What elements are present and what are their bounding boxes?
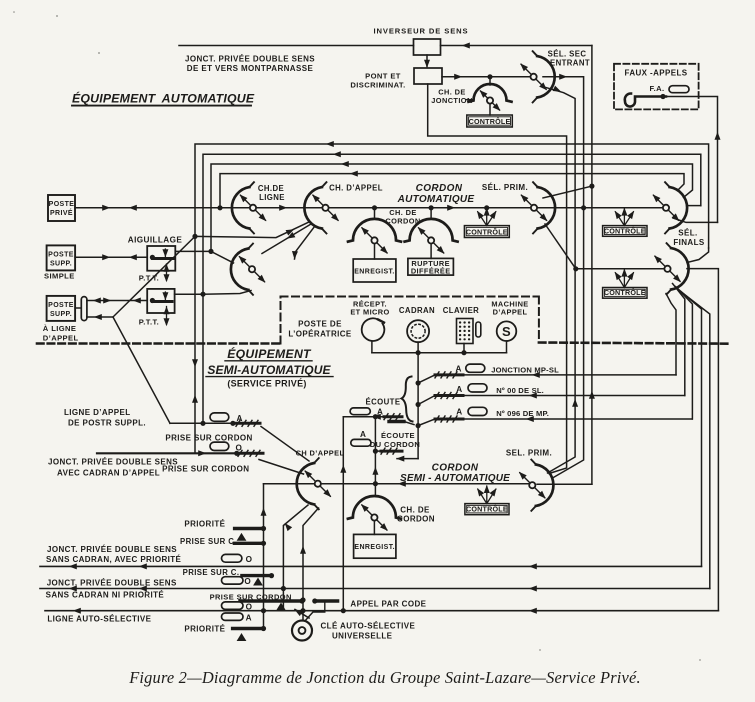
label LIGNE D APPEL DE POSTE SUPPL [64, 408, 146, 428]
wire frame line 2 [203, 151, 701, 423]
svg-text:SUPP.: SUPP. [50, 311, 72, 318]
svg-text:CLÉ AUTO-SÉLECTIVE: CLÉ AUTO-SÉLECTIVE [321, 622, 416, 631]
wire sel prim down-diagonal to bus v575 [545, 224, 576, 269]
jack bar appel par code [277, 599, 338, 610]
wire poste prive main line [75, 205, 250, 211]
wire sel finals2 fan to row No 00 DE SL [673, 284, 685, 396]
node diag x v592 [590, 184, 594, 188]
component CADRAN dial [399, 306, 435, 342]
wire sel finals 2 input line [576, 268, 664, 270]
P.T.T. double arrow 1 [139, 264, 170, 283]
wire sel finals1 side link to v701 [687, 205, 701, 207]
wire bottom bus 3 [45, 608, 718, 614]
node ch de cordon 1 tap [372, 206, 376, 210]
label JONCT PRIVEE DOUBLE SENS AVEC CADRAN [48, 458, 178, 478]
label JONCT PRIVEE SANS CADRAN AVEC PRIORITE [46, 545, 182, 564]
selector SEL FINALS 1 [650, 182, 687, 233]
row JONCTION MP-SL [435, 364, 676, 378]
pill O 3 [222, 602, 253, 611]
svg-text:LIGNE AUTO-SÉLECTIVE: LIGNE AUTO-SÉLECTIVE [47, 615, 151, 624]
svg-text:D’APPEL: D’APPEL [493, 308, 528, 317]
controle C3 with trident [603, 208, 647, 237]
svg-text:POSTE: POSTE [48, 302, 74, 309]
svg-text:PRISE SUR C.: PRISE SUR C. [183, 568, 240, 577]
selector CH. DE CORDON (semi) + ENREGIST [348, 484, 435, 559]
wire inverseur output to right bus corner [441, 43, 592, 49]
svg-text:ENREGIST.: ENREGIST. [354, 544, 395, 551]
box POSTE SUPP. SIMPLE [44, 245, 75, 280]
controle C2 with trident [464, 208, 509, 238]
svg-text:CONTRÔLE: CONTRÔLE [466, 505, 508, 514]
label CORDON AUTOMATIQUE [397, 183, 475, 205]
node ch de cordon 2 tap [429, 206, 433, 210]
svg-text:PONT ET: PONT ET [365, 72, 401, 81]
svg-text:L’OPÉRATRICE: L’OPÉRATRICE [288, 330, 352, 339]
label POSTE DE L OPERATRICE [288, 320, 352, 339]
wire montparnasse trunk into inverseur [179, 45, 414, 47]
wire semi selector fan to v303 [300, 508, 319, 621]
svg-text:SANS CADRAN, AVEC PRIORITÉ: SANS CADRAN, AVEC PRIORITÉ [46, 555, 182, 564]
svg-text:PRISE SUR C.: PRISE SUR C. [180, 537, 237, 546]
svg-text:O: O [244, 577, 251, 586]
label CLE AUTO-SELECTIVE UNIVERSELLE [321, 622, 416, 641]
label CORDON SEMI-AUTOMATIQUE [400, 463, 510, 485]
selector aiguillage [231, 244, 268, 295]
svg-text:ENREGIST.: ENREGIST. [354, 269, 395, 276]
svg-text:CLAVIER: CLAVIER [443, 306, 479, 315]
svg-text:P.T.T.: P.T.T. [139, 318, 159, 327]
wire operator component bus [372, 341, 507, 355]
svg-text:A: A [246, 613, 252, 622]
svg-text:SEMI-AUTOMATIQUE: SEMI-AUTOMATIQUE [207, 363, 331, 377]
svg-text:FAUX -APPELS: FAUX -APPELS [624, 69, 687, 78]
wire jack diag row2 [418, 396, 435, 405]
svg-text:Nº 096 DE MP.: Nº 096 DE MP. [496, 409, 549, 418]
wire SEL.SEC diagonal output down bus v575 [542, 86, 578, 473]
svg-text:ÉCOUTE: ÉCOUTE [381, 431, 415, 440]
svg-text:A: A [456, 408, 462, 417]
svg-text:Nº 00 DE SL.: Nº 00 DE SL. [496, 386, 544, 395]
svg-text:ET MICRO: ET MICRO [350, 308, 389, 317]
svg-text:SEL. PRIM.: SEL. PRIM. [506, 449, 552, 458]
svg-text:PRISE SUR CORDON: PRISE SUR CORDON [165, 433, 252, 442]
svg-text:CONTRÔLE: CONTRÔLE [466, 228, 508, 237]
wire pill fork down-branch to ligne d appel row [113, 317, 170, 423]
wire frame line 1 (return bus) [192, 141, 709, 453]
svg-text:AIGUILLAGE: AIGUILLAGE [128, 236, 183, 245]
svg-text:CONTRÔLE: CONTRÔLE [469, 117, 511, 126]
box POSTE PRIVE [48, 195, 75, 221]
heading EQUIPEMENT SEMI-AUTOMATIQUE (SERVICE PRIVE) [206, 346, 333, 389]
component line-of-call pill (vertical) [75, 297, 87, 321]
wire pill bottom line of poste supp 3 [87, 314, 113, 320]
selector CH. D APPEL (auto) [304, 182, 383, 233]
row ligne d appel jack line [170, 420, 260, 426]
jack bar priorite 1 [235, 529, 264, 541]
wire semi line to v592 output [537, 483, 592, 485]
svg-text:ÉQUIPEMENT: ÉQUIPEMENT [227, 346, 312, 361]
wire sel prim up-diagonal to bus v592 [543, 186, 592, 198]
svg-text:CONTRÔLE: CONTRÔLE [604, 288, 646, 297]
component ecoute jack bar [389, 422, 414, 425]
svg-text:JONCT. PRIVÉE DOUBLE SENS: JONCT. PRIVÉE DOUBLE SENS [48, 458, 178, 467]
wire operator trunk down [416, 353, 420, 459]
wire junction drop to CH DE JONCTION dome [489, 77, 491, 85]
svg-text:CH. D’APPEL: CH. D’APPEL [329, 184, 383, 193]
row ECOUTE A pill [343, 407, 402, 419]
box POSTE SUPP. A LIGNE D'APPEL [43, 296, 79, 343]
node start of sel finals 2 line [574, 267, 578, 271]
selector SEL. SEC ENTRANT [518, 50, 590, 103]
svg-text:JONCT. PRIVÉE DOUBLE SENS: JONCT. PRIVÉE DOUBLE SENS [47, 545, 177, 554]
component pill O row2 [210, 442, 243, 452]
svg-text:DE POSTR SUPPL.: DE POSTR SUPPL. [68, 419, 146, 428]
row jonct privee avec cadran jack line [97, 450, 263, 456]
node controle C2 tap [485, 206, 489, 210]
wire main line CH DE LIGNE to CH D APPEL [256, 205, 323, 211]
component CLE AUTO-SELECTIVE key [292, 603, 325, 641]
svg-text:ÉCOUTE: ÉCOUTE [366, 397, 401, 406]
component MACHINE D APPEL [491, 300, 528, 342]
svg-text:AVEC CADRAN D’APPEL: AVEC CADRAN D’APPEL [57, 469, 160, 478]
wire sel finals2 fan to bottom bus2 [680, 291, 710, 589]
controle C5 with trident [465, 485, 509, 515]
wire semi line left corner down v262 [261, 484, 267, 631]
svg-text:F.A.: F.A. [649, 84, 664, 93]
wire aiguillage2 output to v203 [175, 292, 205, 296]
wire CH D APPEL short fan stub [291, 227, 314, 260]
wire pont output to SEL.SEC wiper [442, 74, 531, 80]
wire ecoute du cordon drop to semi line [372, 417, 378, 484]
selector CH. DE CORDON 2 + RUPTURE DIFFEREE [405, 208, 458, 276]
svg-text:DIFFÉRÉE: DIFFÉRÉE [411, 267, 451, 276]
pill O avec priorite [222, 554, 253, 564]
svg-text:JONCT. PRIVÉE DOUBLE SENS: JONCT. PRIVÉE DOUBLE SENS [47, 579, 177, 588]
svg-text:S: S [502, 324, 511, 339]
node junction on pont output [488, 75, 492, 79]
wire CH D APPEL fan to aiguillage selector [262, 224, 311, 254]
svg-text:DISCRIMINAT.: DISCRIMINAT. [350, 81, 405, 90]
svg-text:FINALS: FINALS [673, 238, 705, 247]
row ECOUTE DU CORDON [351, 430, 420, 454]
wire main line CH D APPEL to SEL PRIM [329, 205, 532, 211]
brace ecoute group [402, 377, 413, 422]
svg-text:JONCT. PRIVÉE DOUBLE SENS: JONCT. PRIVÉE DOUBLE SENS [185, 55, 315, 64]
wire sel finals1 fan to v717 [673, 218, 718, 222]
wire jack diag row3 [418, 419, 435, 426]
wire bottom bus 1 [40, 563, 702, 569]
component pill A row1 [210, 413, 243, 423]
svg-text:Figure 2—Diagramme de Jonction: Figure 2—Diagramme de Jonction du Groupe… [128, 668, 641, 687]
wire pont group frame bottom to bus v567 [428, 84, 567, 474]
node main line x bus v584 [582, 206, 586, 210]
svg-text:CORDON: CORDON [416, 183, 463, 194]
svg-text:ÉQUIPEMENT AUTOMATIQUE: ÉQUIPEMENT AUTOMATIQUE [72, 91, 255, 106]
pill O 2 [222, 577, 263, 586]
svg-text:CORDON: CORDON [397, 515, 435, 524]
svg-text:D’APPEL: D’APPEL [43, 334, 79, 343]
svg-text:(SERVICE PRIVÉ): (SERVICE PRIVÉ) [227, 379, 306, 389]
selector CH.DE LIGNE [232, 182, 285, 233]
wire inverseur bus v592 down to semi sel prim [554, 46, 595, 485]
svg-text:SÉL.: SÉL. [678, 229, 697, 238]
wire jack diag row1 [418, 375, 435, 383]
component F.A. plug hook [625, 93, 666, 106]
svg-text:INVERSEUR DE SENS: INVERSEUR DE SENS [373, 27, 468, 36]
svg-text:AUTOMATIQUE: AUTOMATIQUE [397, 194, 475, 205]
svg-text:ENTRANT: ENTRANT [550, 59, 590, 68]
svg-text:POSTE DE: POSTE DE [298, 320, 342, 329]
box CONTROLE C1 [467, 115, 513, 127]
wire sel finals2 fan to row No 096 DE MP [676, 287, 693, 420]
svg-text:CH. DE: CH. DE [400, 506, 430, 515]
row No 00 DE SL [435, 384, 685, 399]
P.T.T. double arrow 2 [139, 306, 170, 326]
wire dome to controle C1 [489, 104, 491, 115]
svg-text:LIGNE: LIGNE [259, 193, 285, 202]
boundary dashed equipment line (left) [37, 342, 281, 345]
wire trunk end left arrow [396, 456, 418, 462]
wire aiguillage1 to selector diag [211, 251, 234, 263]
svg-text:JONCTION MP-SL: JONCTION MP-SL [491, 365, 559, 374]
wire semi selector fan to v283 [281, 505, 308, 611]
wire row2 diagonal to semi ch d appel [259, 460, 304, 475]
svg-text:À LIGNE: À LIGNE [43, 324, 77, 333]
controle C4 with trident [603, 269, 647, 299]
svg-text:PRIORITÉ: PRIORITÉ [184, 520, 225, 529]
wire row1 diagonal to semi ch d appel [261, 427, 309, 462]
label SEL. FINALS [673, 229, 705, 248]
jack bar priorite 2 [233, 629, 263, 641]
svg-text:A: A [237, 414, 243, 423]
selector SEL PRIM (semi) [517, 460, 554, 511]
box FAUX-APPELS (dashed) [614, 64, 699, 110]
box aiguillage 2 (P.T.T.) [147, 289, 174, 313]
svg-text:PRIVÉ: PRIVÉ [50, 208, 73, 217]
wire sel finals2 fan to bottom bus1 [678, 289, 702, 566]
wire sel finals2 hook tail to row JONCTION MP-SL [666, 294, 676, 375]
row No 096 DE MP [435, 407, 692, 422]
svg-text:CONTRÔLE: CONTRÔLE [604, 226, 646, 235]
wire main line SEL PRIM to SEL FINALS [537, 207, 663, 209]
selector CH. DE CORDON 1 + ENREGIST [348, 208, 421, 282]
svg-text:CADRAN: CADRAN [399, 306, 435, 315]
wire pill fork up-branch to v195 [113, 234, 197, 317]
node main line / frame4 [218, 206, 222, 210]
svg-text:SÉL. PRIM.: SÉL. PRIM. [482, 183, 528, 192]
svg-text:PRIORITÉ: PRIORITÉ [184, 625, 225, 634]
pill A bottom [222, 613, 252, 622]
svg-text:JONCTION: JONCTION [431, 96, 472, 105]
heading EQUIPEMENT AUTOMATIQUE [72, 91, 255, 106]
jack bar prise sur c 2 [242, 574, 274, 578]
wire poste supp a ligne line [87, 298, 155, 304]
selector CH D APPEL (semi) [297, 458, 334, 509]
svg-text:APPEL PAR CODE: APPEL PAR CODE [350, 600, 426, 609]
wire bottom bus 2 [40, 586, 710, 592]
wire sel finals2 right output to bus3 [687, 269, 718, 611]
wire semi main line [264, 481, 530, 487]
svg-text:SÉL. SEC: SÉL. SEC [548, 50, 587, 59]
component CLAVIER keypad [443, 306, 481, 344]
box PONT ET DISCRIMINAT. [350, 68, 442, 90]
svg-text:SANS CADRAN NI PRIORITÉ: SANS CADRAN NI PRIORITÉ [46, 591, 165, 600]
svg-text:POSTE: POSTE [48, 252, 74, 259]
svg-text:UNIVERSELLE: UNIVERSELLE [332, 632, 393, 641]
box aiguillage 1 (P.T.T.) [147, 246, 175, 271]
svg-text:O: O [236, 444, 243, 453]
wire poste supp simple line [75, 254, 154, 260]
component RECEPT. ET MICRO [350, 300, 389, 341]
svg-text:SIMPLE: SIMPLE [44, 272, 75, 281]
wire F.A. to right edge vertical v717 [666, 97, 721, 223]
svg-text:O: O [246, 555, 253, 564]
jack bar prise sur c 1 [234, 542, 262, 545]
svg-text:SEMI - AUTOMATIQUE: SEMI - AUTOMATIQUE [400, 473, 510, 484]
svg-text:CORDON: CORDON [432, 463, 479, 474]
wire inverseur to pont vertical arrow [424, 55, 430, 68]
svg-text:DU CORDON: DU CORDON [370, 440, 420, 449]
label JONCT. PRIVEE DOUBLE SENS DE ET VERS MONTPARNASSE [185, 55, 315, 74]
wire ecoute corner v343 [340, 417, 346, 613]
svg-text:SUPP.: SUPP. [50, 261, 72, 268]
wire aiguillage1 output to v211 [175, 249, 213, 253]
wire frame line 3 [211, 161, 693, 251]
component F.A. jack pill [669, 86, 689, 93]
svg-text:CH D’APPEL: CH D’APPEL [296, 449, 345, 458]
box INVERSEUR DE SENS [373, 27, 468, 56]
selector SEL PRIM (auto) [518, 182, 555, 233]
jack bar prise sur cordon bottom [240, 599, 304, 603]
wire frame line 4 [220, 171, 684, 208]
svg-text:DE ET VERS MONTPARNASSE: DE ET VERS MONTPARNASSE [187, 64, 314, 73]
svg-text:POSTE: POSTE [49, 201, 75, 208]
svg-text:LIGNE D’APPEL: LIGNE D’APPEL [64, 408, 131, 417]
selector CH. DE JONCTION [431, 84, 511, 113]
svg-text:CH.DE: CH.DE [258, 184, 284, 193]
svg-text:A: A [360, 430, 366, 439]
wire SEL.SEC right output down bus v584 [543, 74, 584, 478]
selector SEL FINALS 2 [652, 243, 689, 294]
wire v195 tap across to CH D APPEL arc [195, 222, 310, 238]
wire aiguillage2 curve to selector bottom [203, 291, 251, 295]
